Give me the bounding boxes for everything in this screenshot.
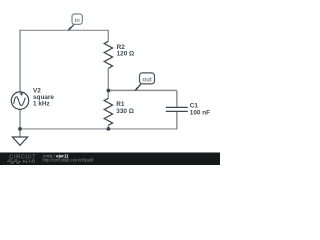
node flag out — [134, 73, 154, 91]
V2 value labels — [33, 88, 54, 108]
wire resistor R1 bottom lead — [107, 125, 109, 129]
wire capacitor bottom lead — [176, 112, 178, 129]
svg-text:120 Ω: 120 Ω — [117, 51, 135, 58]
resistor R1 — [104, 98, 112, 125]
svg-text:out: out — [142, 77, 151, 83]
R1 value labels — [116, 101, 134, 115]
wire capacitor top lead — [176, 91, 178, 108]
capacitor C1 — [166, 107, 188, 111]
svg-text:330 Ω: 330 Ω — [116, 108, 134, 115]
svg-text:100 nF: 100 nF — [190, 110, 210, 117]
resistor R2 — [104, 41, 112, 68]
R2 value labels — [117, 44, 135, 58]
ground — [12, 137, 27, 145]
voltage source V2 — [11, 92, 28, 110]
wire resistor R2 bottom lead — [107, 68, 109, 90]
svg-text:▸LAB: ▸LAB — [23, 158, 35, 163]
wire bottom rail — [19, 128, 177, 130]
watermark bar — [0, 153, 220, 166]
wire top rail — [19, 29, 109, 31]
wire left rail upper — [19, 30, 21, 92]
junction dot bottom left — [18, 127, 22, 131]
wire left rail lower — [19, 109, 21, 137]
C1 value labels — [190, 103, 210, 117]
watermark logo LAB + squiggle — [7, 160, 21, 163]
node flag in — [68, 14, 83, 31]
wire resistor R2 top lead — [107, 30, 109, 41]
wire out (node out horizontal) — [108, 89, 176, 91]
svg-text:http://circuitlab.com/c/5pa6f: http://circuitlab.com/c/5pa6f — [43, 158, 95, 163]
svg-text:1 kHz: 1 kHz — [33, 100, 50, 107]
svg-text:in: in — [75, 18, 81, 24]
junction dot node out — [107, 89, 111, 93]
wire resistor R1 top lead — [107, 91, 109, 99]
junction dot bottom mid — [107, 127, 111, 131]
